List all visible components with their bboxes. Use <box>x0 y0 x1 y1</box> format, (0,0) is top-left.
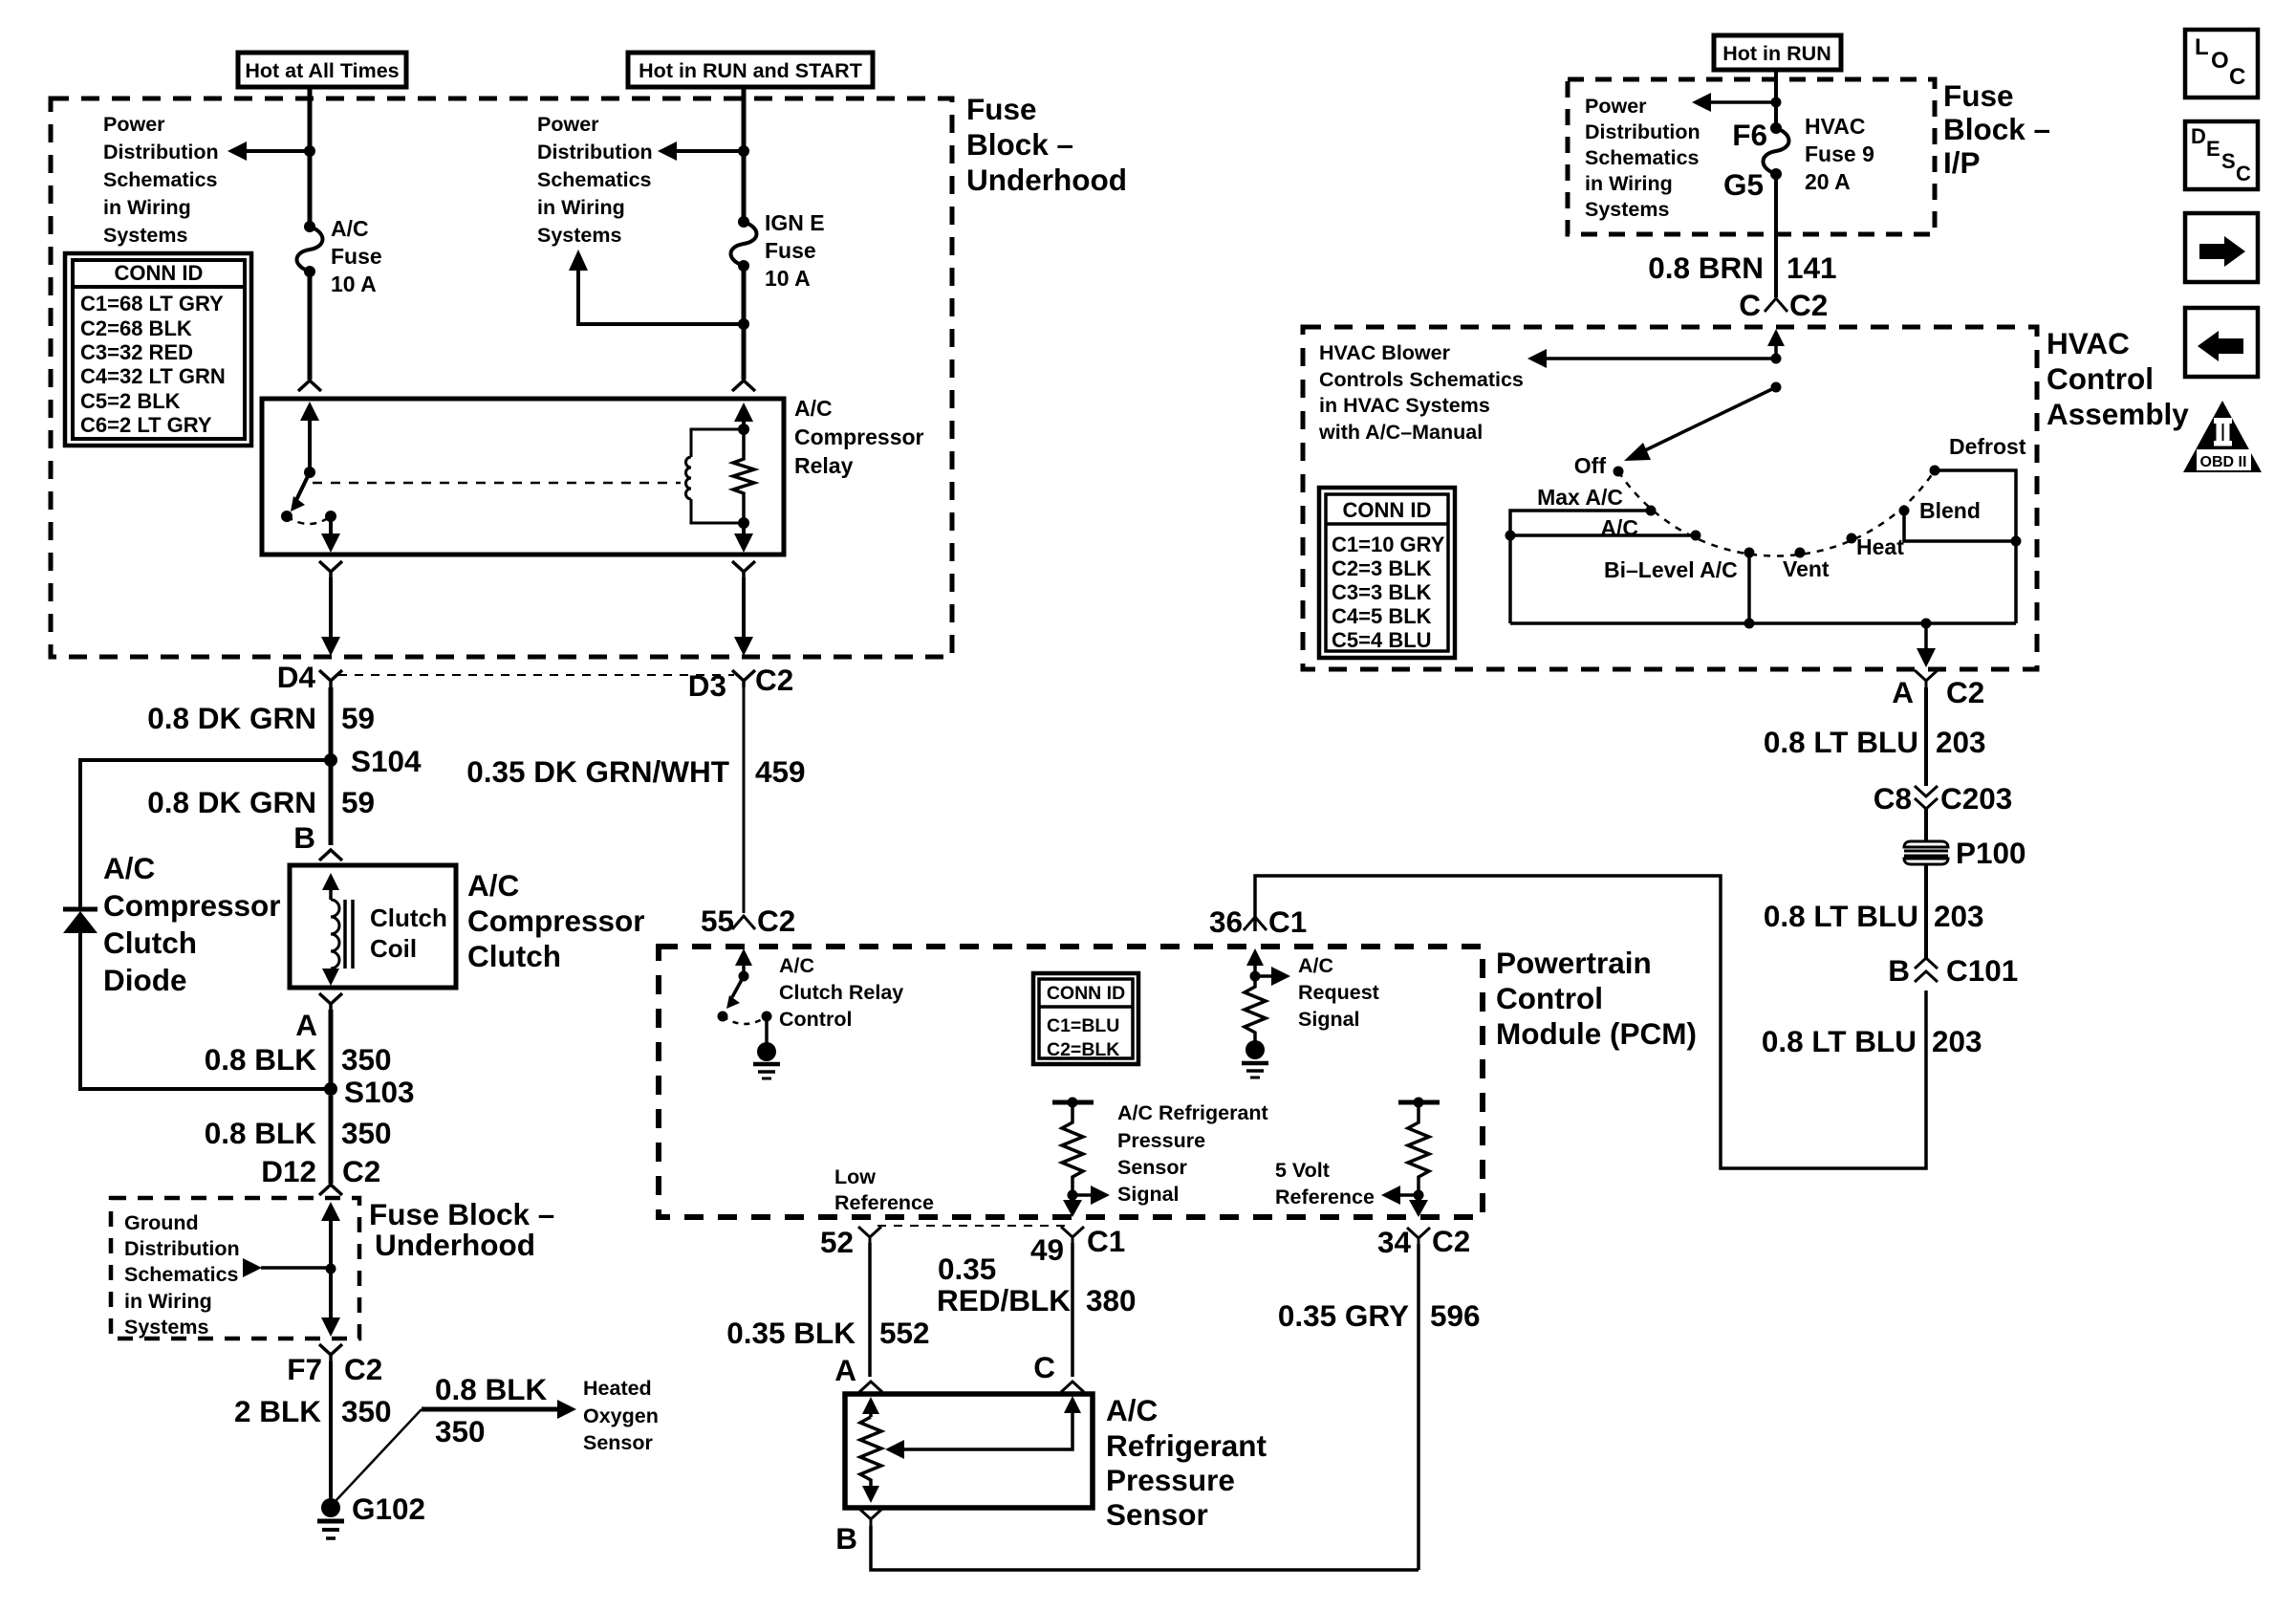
relay switch: left contact node <box>281 511 292 522</box>
note text: Power Distribution Schematics in Wiring Systems (I/P) <box>1585 95 1700 221</box>
wire: 0.8 LT BLU 203 (upper) <box>1924 687 1928 786</box>
svg-text:Hot in RUN and START: Hot in RUN and START <box>639 59 862 82</box>
svg-text:203: 203 <box>1936 725 1986 759</box>
svg-text:Block –: Block – <box>1943 112 2050 146</box>
svg-text:59: 59 <box>341 701 375 735</box>
wire: Defrost line and right rail <box>1935 470 2016 623</box>
svg-text:141: 141 <box>1787 250 1837 285</box>
svg-text:Schematics: Schematics <box>103 168 218 191</box>
svg-text:Defrost: Defrost <box>1949 434 2026 459</box>
relay: arrow down at coil terminal 85 <box>734 523 753 553</box>
connector chevron into sensor pin C <box>1061 1382 1084 1392</box>
component label: A/C Compressor Relay <box>794 396 924 478</box>
svg-text:Sensor: Sensor <box>583 1431 654 1454</box>
node: rotary switch feed junction <box>1771 382 1782 393</box>
svg-text:Compressor: Compressor <box>794 425 924 449</box>
pin 55 connector chevron <box>732 916 755 929</box>
connector B/C101 double chevron <box>1915 958 1938 982</box>
wire: diode to S103 <box>80 933 325 1089</box>
svg-text:203: 203 <box>1934 899 1984 933</box>
svg-text:Vent: Vent <box>1783 556 1830 581</box>
node: coil bottom junction <box>738 517 749 529</box>
clutch coil: arrow up <box>322 873 339 900</box>
wire: 0.35 RED/BLK 380 <box>1071 1243 1074 1377</box>
component label: A/C Refrigerant Pressure Sensor <box>1106 1393 1267 1532</box>
ground G102 terminal <box>317 1498 344 1538</box>
wire label: 0.8 LT BLU 203 (middle) <box>1764 899 1984 933</box>
value label: A/C Fuse 10 A <box>331 216 382 296</box>
svg-text:Distribution: Distribution <box>1585 120 1700 143</box>
component label: Powertrain Control Module (PCM) <box>1496 946 1697 1051</box>
svg-text:C1=10 GRY: C1=10 GRY <box>1332 533 1445 556</box>
svg-text:B: B <box>293 820 315 855</box>
svg-text:G5: G5 <box>1723 167 1764 202</box>
arrow: to HVAC blower controls schematics <box>1527 349 1776 368</box>
svg-text:IGN E: IGN E <box>765 210 825 235</box>
component label: A/C Compressor Clutch <box>467 868 645 973</box>
function label: A/C Request Signal <box>1298 954 1379 1031</box>
svg-text:10 A: 10 A <box>331 272 377 296</box>
svg-text:Distribution: Distribution <box>124 1237 240 1260</box>
pin 52 connector chevron <box>858 1227 881 1243</box>
wire: 0.8 DK GRN 59 (upper) <box>329 687 334 754</box>
relay switch: arrow up at contact 30 <box>300 402 319 472</box>
pin 36 connector chevron <box>1244 917 1267 930</box>
svg-text:Heat: Heat <box>1856 534 1904 559</box>
label box: Hot in RUN <box>1714 35 1841 70</box>
svg-text:C2: C2 <box>344 1352 382 1386</box>
svg-text:C6=2 LT GRY: C6=2 LT GRY <box>80 413 212 437</box>
svg-text:in Wiring: in Wiring <box>1585 172 1673 195</box>
clutch coil: arrow down <box>322 969 339 986</box>
relay switch: output contact node <box>325 511 336 522</box>
svg-text:C3=3 BLK: C3=3 BLK <box>1332 580 1432 604</box>
svg-text:C1=68 LT GRY: C1=68 LT GRY <box>80 292 224 316</box>
svg-text:S: S <box>2221 149 2236 173</box>
svg-text:Power: Power <box>1585 95 1647 118</box>
svg-text:Block –: Block – <box>966 127 1073 162</box>
note text: Power Distribution Schematics in Wiring Systems (right) <box>537 113 653 247</box>
svg-text:I/P: I/P <box>1943 145 1981 180</box>
node: Bi-Level bus junction <box>1744 619 1755 629</box>
svg-text:G102: G102 <box>352 1491 425 1526</box>
svg-text:Schematics: Schematics <box>1585 146 1700 169</box>
pin 34 connector chevron <box>1407 1228 1430 1244</box>
connector chevron below sensor (B) <box>859 1509 882 1526</box>
svg-text:C3=32 RED: C3=32 RED <box>80 340 193 364</box>
svg-text:Fuse 9: Fuse 9 <box>1805 142 1874 166</box>
svg-text:F7: F7 <box>287 1352 322 1386</box>
svg-text:B: B <box>835 1521 857 1556</box>
ground schematics pointer arrow <box>243 1258 331 1277</box>
svg-text:A/C: A/C <box>331 216 369 241</box>
svg-text:Fuse: Fuse <box>966 92 1037 126</box>
svg-text:34: 34 <box>1377 1225 1412 1259</box>
fuse block I/P dashed box <box>1568 79 1935 234</box>
wire: Bi-Level drop <box>1747 553 1751 623</box>
svg-text:Systems: Systems <box>1585 198 1669 221</box>
svg-text:0.8 DK GRN: 0.8 DK GRN <box>147 785 316 819</box>
icon: OBD II triangle <box>2183 401 2262 472</box>
svg-text:A/C: A/C <box>794 396 833 421</box>
svg-text:C1: C1 <box>1087 1224 1125 1258</box>
node: junction feeding up-arrow branch <box>738 318 749 330</box>
svg-text:Assembly: Assembly <box>2047 397 2189 431</box>
svg-text:10 A: 10 A <box>765 266 811 291</box>
CONN ID table (PCM) <box>1033 973 1138 1064</box>
svg-text:Hot in RUN: Hot in RUN <box>1722 42 1830 65</box>
svg-text:Distribution: Distribution <box>537 141 653 163</box>
svg-text:Distribution: Distribution <box>103 141 219 163</box>
svg-text:OBD II: OBD II <box>2200 454 2247 470</box>
node: sensor signal tap <box>1068 1190 1078 1201</box>
pin 49 connector chevron <box>1061 1227 1084 1243</box>
arrow: request signal to label <box>1255 967 1290 986</box>
svg-text:Clutch: Clutch <box>103 925 197 960</box>
svg-text:CONN ID: CONN ID <box>115 261 204 285</box>
function label: A/C Clutch Relay Control <box>779 954 903 1031</box>
svg-text:with A/C–Manual: with A/C–Manual <box>1318 421 1483 444</box>
svg-text:Compressor: Compressor <box>103 888 281 923</box>
connector chevron below relay (left leg) <box>319 561 342 577</box>
svg-text:Clutch: Clutch <box>370 903 447 932</box>
rotary contact: Defrost <box>1930 466 1940 476</box>
node: coil top junction <box>738 424 749 435</box>
component label: A/C Compressor Clutch Diode <box>103 851 281 997</box>
internal ground (request signal) <box>1242 1040 1268 1078</box>
svg-text:Fuse Block –: Fuse Block – <box>369 1197 554 1231</box>
wire: HVAC fuse feed <box>1774 70 1778 297</box>
svg-text:Control: Control <box>779 1008 852 1031</box>
value label: Clutch Coil <box>370 903 447 963</box>
svg-text:C4=5 BLK: C4=5 BLK <box>1332 604 1432 628</box>
svg-text:C: C <box>2229 64 2245 90</box>
sensor element: arrow down <box>862 1486 879 1503</box>
svg-text:Fuse: Fuse <box>331 244 382 269</box>
wire: A/C request signal route (36 to HVAC via C101) <box>1255 876 1926 1168</box>
connector chevron into ground fuse block <box>319 1185 342 1195</box>
svg-text:D4: D4 <box>277 660 316 694</box>
rotary contact: Vent <box>1795 548 1806 558</box>
svg-text:Heated: Heated <box>583 1377 652 1400</box>
wire label: 0.8 BLK 350 (oxygen sensor) <box>435 1372 548 1448</box>
wire label: 0.35 GRY 596 <box>1278 1298 1481 1333</box>
svg-text:0.35: 0.35 <box>938 1252 996 1286</box>
svg-text:Pressure: Pressure <box>1117 1129 1205 1152</box>
relay coil resistor: zigzag <box>733 429 754 523</box>
svg-text:Controls Schematics: Controls Schematics <box>1319 368 1524 391</box>
grommet P100 <box>1904 841 1948 864</box>
svg-text:Low: Low <box>834 1165 876 1188</box>
svg-text:F6: F6 <box>1732 118 1767 152</box>
wire label: 0.8 LT BLU 203 (upper) <box>1764 725 1986 759</box>
ground distribution fuse block dashed box <box>111 1198 359 1339</box>
svg-text:Powertrain: Powertrain <box>1496 946 1652 980</box>
svg-text:D12: D12 <box>261 1154 316 1188</box>
svg-text:A: A <box>1892 675 1914 709</box>
fuse block underhood dashed box <box>51 98 952 657</box>
svg-text:Max A/C: Max A/C <box>1537 485 1623 510</box>
wire: 0.8 BLK 350 (lower) <box>329 1096 334 1184</box>
driver switch dashed arc <box>723 1016 767 1024</box>
svg-text:C4=32 LT GRN: C4=32 LT GRN <box>80 364 226 388</box>
relay: dashed actuation coupling line <box>313 482 681 485</box>
svg-text:0.8 LT BLU: 0.8 LT BLU <box>1764 725 1918 759</box>
svg-text:S103: S103 <box>344 1075 415 1109</box>
svg-text:Underhood: Underhood <box>375 1228 535 1262</box>
svg-text:A/C Refrigerant: A/C Refrigerant <box>1117 1101 1268 1124</box>
svg-text:Control: Control <box>2047 361 2154 396</box>
svg-text:380: 380 <box>1086 1283 1137 1317</box>
svg-text:Underhood: Underhood <box>966 163 1127 197</box>
svg-text:in HVAC Systems: in HVAC Systems <box>1319 394 1490 417</box>
icon: LOC reference box <box>2185 30 2258 98</box>
icon: DESC reference box <box>2185 121 2258 189</box>
svg-text:HVAC: HVAC <box>2047 326 2130 360</box>
svg-text:A/C: A/C <box>467 868 519 903</box>
wire: relay output to D4 <box>321 577 340 656</box>
svg-text:Signal: Signal <box>1117 1183 1180 1206</box>
label box: Hot at All Times <box>238 53 406 87</box>
rotary contact: A/C <box>1691 531 1701 541</box>
wire label: 0.8 DK GRN 59 (lower) <box>147 785 375 819</box>
arrow: HVAC output down <box>1917 623 1936 667</box>
relay: arrow up at coil terminal 86 <box>734 403 753 429</box>
wire: relay coil return to D3 <box>734 577 753 656</box>
wire label: 0.35 RED/BLK 380 <box>937 1252 1137 1317</box>
svg-text:0.8 LT BLU: 0.8 LT BLU <box>1764 899 1918 933</box>
icon: back arrow box <box>2185 308 2258 377</box>
svg-text:C1: C1 <box>1268 904 1307 939</box>
svg-text:C2: C2 <box>755 663 793 697</box>
svg-text:Systems: Systems <box>537 224 621 247</box>
svg-text:49: 49 <box>1030 1232 1064 1267</box>
wire: 0.8 BLK 350 branch to heated oxygen sensor <box>336 1400 576 1501</box>
connector chevron below clutch <box>319 993 342 1010</box>
svg-text:A/C: A/C <box>1298 954 1333 977</box>
svg-text:0.35 GRY: 0.35 GRY <box>1278 1298 1409 1333</box>
svg-text:O: O <box>2211 48 2229 74</box>
connector C1 boundary: thin dashed line 52-49 <box>877 1225 1065 1227</box>
svg-text:in Wiring: in Wiring <box>124 1290 212 1313</box>
svg-text:A/C: A/C <box>779 954 814 977</box>
connector chevron below relay (right leg) <box>732 561 755 577</box>
wire: arrow to Power Distribution Schematics (left) <box>227 142 310 161</box>
svg-text:Blend: Blend <box>1919 498 1981 523</box>
sensor element: resistor zigzag <box>860 1417 881 1488</box>
svg-text:Systems: Systems <box>124 1316 208 1339</box>
note text: Ground Distribution Schematics in Wiring Systems <box>124 1211 240 1339</box>
svg-text:Off: Off <box>1574 453 1607 478</box>
svg-text:Ground: Ground <box>124 1211 199 1234</box>
wire: Max A/C feed line <box>1510 511 1651 623</box>
wire label: 0.8 LT BLU 203 (lower) <box>1762 1024 1982 1058</box>
resistor: pressure sensor signal <box>1062 1102 1083 1190</box>
svg-text:Power: Power <box>103 113 165 136</box>
wire: arrow to Power Distribution Schematics (I/P) <box>1692 93 1776 112</box>
component label: Fuse Block - I/P <box>1943 78 2050 180</box>
driver switch left contact node <box>718 1012 728 1022</box>
rotary switch wiper arm (arrow to Off) <box>1624 387 1776 461</box>
svg-text:Coil: Coil <box>370 934 417 963</box>
arrow: 5V ref down to pin 34 <box>1409 1195 1428 1217</box>
relay coil: loop wiring <box>691 429 744 523</box>
relay switch: arrow down to 87 <box>321 516 340 553</box>
HVAC input: arrow up <box>1767 329 1785 359</box>
pin A connector chevron (HVAC output) <box>1915 670 1938 687</box>
fuse: IGN E Fuse 10 A <box>731 216 757 272</box>
svg-text:C2: C2 <box>1432 1224 1470 1258</box>
wire: branch with up arrow (power distribution return) <box>569 250 744 324</box>
node: junction on A/C feed <box>304 145 315 157</box>
component: A/C Refrigerant Pressure Sensor box <box>845 1394 1093 1508</box>
CONN ID table (HVAC) <box>1319 488 1455 658</box>
svg-text:Diode: Diode <box>103 963 187 997</box>
component label: Fuse Block - Underhood (bottom) <box>369 1197 554 1262</box>
svg-text:S104: S104 <box>351 744 422 778</box>
relay K: A/C Compressor Relay box <box>262 399 784 555</box>
svg-text:Relay: Relay <box>794 453 854 478</box>
wire: arrow up inside ground block <box>321 1202 340 1269</box>
node: request signal tap <box>1250 971 1261 982</box>
svg-text:C2: C2 <box>1946 675 1984 709</box>
svg-text:Clutch Relay: Clutch Relay <box>779 981 903 1004</box>
svg-text:Control: Control <box>1496 981 1603 1015</box>
svg-text:0.8 BLK: 0.8 BLK <box>435 1372 548 1406</box>
wire: IGN E fuse feed (x=778) <box>742 87 747 380</box>
node S103 splice <box>324 1082 337 1096</box>
node S104 splice <box>324 753 337 767</box>
svg-text:CONN ID: CONN ID <box>1343 498 1432 522</box>
pin D3 connector chevron <box>732 670 755 687</box>
PCM A/C request input: arrow up <box>1246 948 1264 976</box>
PCM 5 volt reference pull-up: top rail <box>1398 1098 1440 1108</box>
wire: sensor B return to pin 34 <box>871 1526 1419 1570</box>
arrow: 5V reference to label <box>1381 1186 1419 1205</box>
svg-text:Sensor: Sensor <box>1117 1156 1188 1179</box>
wire: 0.8 LT BLU 203 (middle) <box>1924 865 1928 959</box>
svg-text:Power: Power <box>537 113 599 136</box>
svg-text:Systems: Systems <box>103 224 187 247</box>
node: Blend right rail junction <box>2011 536 2022 547</box>
wire: 0.35 BLK 552 <box>868 1243 872 1377</box>
svg-text:C2=68 BLK: C2=68 BLK <box>80 316 192 340</box>
clutch coil: winding arcs <box>331 900 339 969</box>
note text: Heated Oxygen Sensor <box>583 1377 659 1454</box>
function label: Low Reference <box>834 1165 934 1214</box>
svg-text:P100: P100 <box>1956 836 2026 870</box>
component label: HVAC Control Assembly <box>2047 326 2189 431</box>
resistor: 5 volt reference <box>1408 1102 1429 1190</box>
wire label: 0.35 DK GRN/WHT 459 <box>466 754 805 789</box>
svg-text:A: A <box>834 1353 856 1387</box>
node: junction on HVAC feed <box>1771 98 1782 108</box>
svg-text:C: C <box>2236 162 2251 185</box>
svg-text:5 Volt: 5 Volt <box>1275 1159 1330 1182</box>
svg-text:A/C: A/C <box>103 851 155 885</box>
pin D4 connector chevron <box>319 670 342 687</box>
fuse: A/C Fuse 10 A <box>297 221 323 277</box>
svg-text:203: 203 <box>1932 1024 1982 1058</box>
internal ground (clutch relay control) <box>753 1016 780 1078</box>
svg-text:D: D <box>2191 124 2206 148</box>
note text: Power Distribution Schematics in Wiring Systems (left) <box>103 113 219 247</box>
svg-text:RED/BLK: RED/BLK <box>937 1283 1071 1317</box>
svg-text:Signal: Signal <box>1298 1008 1360 1031</box>
wire: output bus <box>1510 621 2016 625</box>
svg-text:HVAC Blower: HVAC Blower <box>1319 341 1451 364</box>
svg-text:Module (PCM): Module (PCM) <box>1496 1016 1697 1051</box>
resistor: A/C request pull-down <box>1245 976 1266 1042</box>
svg-text:C1=BLU: C1=BLU <box>1047 1015 1119 1036</box>
component label: Fuse Block - Underhood (top) <box>966 92 1127 197</box>
svg-text:596: 596 <box>1430 1298 1481 1333</box>
node: junction in ground block <box>326 1264 336 1274</box>
wire: 0.8 BLK 350 (upper) <box>329 1010 334 1083</box>
value label: HVAC Fuse 9 20 A <box>1805 114 1874 194</box>
node: HVAC feed junction (blower branch) <box>1771 354 1782 364</box>
wire: A/C feed line <box>1510 533 1696 537</box>
svg-text:C2=BLK: C2=BLK <box>1047 1039 1119 1060</box>
svg-text:Refrigerant: Refrigerant <box>1106 1428 1267 1463</box>
svg-text:HVAC: HVAC <box>1805 114 1865 139</box>
svg-text:L: L <box>2195 34 2209 60</box>
svg-text:Pressure: Pressure <box>1106 1463 1235 1497</box>
svg-text:350: 350 <box>435 1414 486 1448</box>
value label: IGN E Fuse 10 A <box>765 210 825 291</box>
wire label: 0.8 BRN 141 <box>1648 250 1836 285</box>
svg-text:Schematics: Schematics <box>537 168 652 191</box>
icon: forward arrow box <box>2185 213 2258 282</box>
svg-text:Oxygen: Oxygen <box>583 1404 659 1427</box>
sensor element: arrow up <box>862 1397 879 1417</box>
wire: C203 to P100 <box>1924 809 1928 840</box>
wire: arrow down to F7 <box>321 1269 340 1337</box>
svg-text:20 A: 20 A <box>1805 169 1851 194</box>
svg-text:C2: C2 <box>757 903 795 938</box>
wire: arrow to Power Distribution Schematics (right) <box>658 142 744 161</box>
connector chevron into relay (right) <box>732 381 755 391</box>
rotary contact: Off <box>1614 467 1624 477</box>
svg-text:Schematics: Schematics <box>124 1263 239 1286</box>
svg-text:A/C: A/C <box>1106 1393 1158 1427</box>
rotary contact: Bi-Level A/C <box>1744 548 1755 558</box>
svg-text:CONN ID: CONN ID <box>1047 983 1125 1004</box>
relay switch: dashed travel arc <box>287 516 331 524</box>
function label: A/C Refrigerant Pressure Sensor Signal <box>1117 1101 1268 1206</box>
svg-text:E: E <box>2206 137 2220 161</box>
svg-text:C: C <box>1033 1350 1055 1384</box>
rotary switch dashed arc <box>1618 470 1935 555</box>
node: A/C line junction on left rail <box>1505 531 1516 541</box>
driver switch ground contact node <box>762 1012 772 1022</box>
svg-text:0.35 BLK: 0.35 BLK <box>726 1316 856 1350</box>
svg-text:2 BLK: 2 BLK <box>234 1394 321 1428</box>
svg-text:350: 350 <box>341 1116 392 1150</box>
node: junction on IGN E feed <box>738 145 749 157</box>
PCM A/C clutch relay control driver: arrow up <box>735 948 752 976</box>
wire label: 0.8 BLK 350 <box>205 1042 392 1077</box>
function label: 5 Volt Reference <box>1275 1159 1375 1208</box>
node: 5V ref tap <box>1414 1190 1424 1201</box>
svg-text:59: 59 <box>341 785 375 819</box>
wire: 0.35 DK GRN/WHT 459 (D3 to PCM 55) <box>743 687 746 913</box>
HVAC control assembly dashed box <box>1303 327 2037 669</box>
svg-text:0.35 DK GRN/WHT: 0.35 DK GRN/WHT <box>466 754 729 789</box>
svg-text:B: B <box>1888 953 1910 988</box>
wire label: 0.8 DK GRN 59 <box>147 701 375 735</box>
component: A/C Compressor Clutch box <box>290 865 456 988</box>
